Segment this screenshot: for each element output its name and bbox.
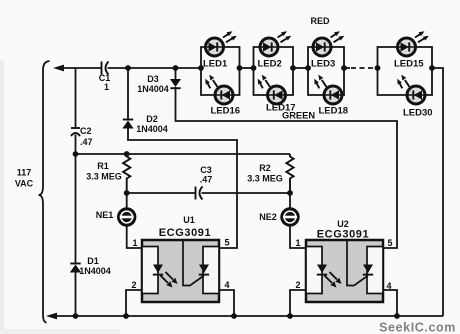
scan edge artifact left xyxy=(0,60,4,334)
svg-text:SeekIC.com: SeekIC.com xyxy=(379,321,456,334)
wire block2 to block3 xyxy=(293,67,308,69)
svg-text:RED: RED xyxy=(310,16,330,26)
wire D3 to U2 pin5 xyxy=(176,87,398,248)
LED block 2 frame xyxy=(254,47,294,95)
svg-text:2: 2 xyxy=(131,280,136,290)
LED block 3 frame xyxy=(308,47,344,95)
node block4 left xyxy=(375,65,381,71)
node C3 right xyxy=(287,190,293,196)
LED block 4 frame xyxy=(378,47,433,95)
scan edge artifact bottom xyxy=(0,329,120,334)
wire D2 branch vertical xyxy=(127,68,129,120)
op-amp U1 ECG3091 optocoupler xyxy=(142,240,219,302)
svg-text:ECG3091: ECG3091 xyxy=(159,227,212,239)
node block2 left xyxy=(251,65,257,71)
svg-text:1: 1 xyxy=(104,82,109,92)
resistor R2 xyxy=(286,154,293,193)
svg-text:LED2: LED2 xyxy=(258,59,282,70)
wire D3 branch vertical xyxy=(175,68,177,79)
capacitor C3 xyxy=(195,187,197,200)
neon lamp NE1 xyxy=(118,208,136,226)
svg-text:U2: U2 xyxy=(337,219,349,229)
wire NE2 to U2 pin1 xyxy=(290,226,306,249)
wire bottom rail xyxy=(55,315,443,317)
wire C2 D1 branch upper xyxy=(75,68,77,128)
LED17 xyxy=(268,86,286,104)
svg-text:GREEN: GREEN xyxy=(282,111,315,121)
node block1 left xyxy=(198,65,204,71)
wire D2 to U1 pin5 xyxy=(128,128,237,248)
node C3 left xyxy=(124,190,130,196)
node junction D2 tap xyxy=(125,65,131,71)
svg-text:R2: R2 xyxy=(259,163,271,173)
LED18 xyxy=(324,86,342,104)
svg-text:NE1: NE1 xyxy=(96,210,114,220)
node R1 top xyxy=(124,151,130,157)
wire U1 pin4 to bottom rail xyxy=(219,290,234,316)
wire R2 to NE2 xyxy=(289,193,291,209)
wire U2 pin2 to bottom rail xyxy=(290,290,306,316)
AC input arrow bottom xyxy=(46,313,57,320)
svg-text:D3: D3 xyxy=(147,74,159,84)
node bottom U1 pin2 xyxy=(123,313,129,319)
wire right rail xyxy=(432,68,443,316)
svg-text:5: 5 xyxy=(387,238,392,248)
wire block1 to block2 xyxy=(240,67,254,69)
wire R1 to NE1 xyxy=(126,193,128,209)
wire dashed continuation xyxy=(344,67,350,69)
svg-text:LED3: LED3 xyxy=(311,59,335,70)
capacitor C1 xyxy=(101,62,103,75)
op-amp U2 ECG3091 optocoupler xyxy=(306,240,383,302)
node bottom U2 pin2 xyxy=(287,313,293,319)
svg-text:D1: D1 xyxy=(87,256,99,266)
LED15 xyxy=(398,38,416,56)
svg-text:.47: .47 xyxy=(80,137,93,147)
svg-text:ECG3091: ECG3091 xyxy=(317,229,370,241)
wire NE1 to U1 pin1 xyxy=(127,226,142,249)
svg-text:3.3 MEG: 3.3 MEG xyxy=(86,172,122,182)
svg-text:LED1: LED1 xyxy=(203,59,228,70)
svg-text:NE2: NE2 xyxy=(259,212,277,222)
LED block 1 frame xyxy=(201,47,240,95)
svg-text:5: 5 xyxy=(224,238,229,248)
svg-text:1N4004: 1N4004 xyxy=(136,124,168,134)
neon lamp NE2 xyxy=(281,208,299,226)
wire D1 to bottom rail xyxy=(75,273,77,317)
node bottom D1 xyxy=(73,313,79,319)
wire top line left of C1 xyxy=(62,67,101,69)
AC input arrow top xyxy=(53,65,64,72)
svg-text:LED15: LED15 xyxy=(394,59,424,70)
svg-text:U1: U1 xyxy=(183,215,195,225)
LED2 xyxy=(260,38,278,56)
svg-text:LED18: LED18 xyxy=(319,106,349,117)
brace 117 VAC source xyxy=(39,61,50,323)
node block4 right xyxy=(429,65,435,71)
node block1 right xyxy=(237,65,243,71)
svg-text:LED30: LED30 xyxy=(403,108,433,119)
svg-text:LED16: LED16 xyxy=(211,106,241,117)
LED1 xyxy=(206,38,224,56)
node R rail left xyxy=(73,151,79,157)
svg-text:.47: .47 xyxy=(200,175,213,185)
svg-text:4: 4 xyxy=(224,280,229,290)
resistor R1 xyxy=(123,154,130,193)
wire C3 to R2 bottom xyxy=(202,192,291,194)
LED16 xyxy=(215,86,233,104)
LED3 xyxy=(313,38,331,56)
node block2 right xyxy=(290,65,296,71)
svg-text:C2: C2 xyxy=(80,126,92,136)
node block3 left xyxy=(305,65,311,71)
capacitor C2 xyxy=(71,127,80,129)
svg-text:2: 2 xyxy=(295,280,300,290)
wire U1 pin2 to bottom rail xyxy=(126,290,142,316)
wire top line C1 to LED block1 xyxy=(108,67,202,69)
wire C3 rail xyxy=(127,192,196,194)
wire R rail horizontal xyxy=(76,153,291,155)
diode D2 xyxy=(123,119,133,121)
node block3 right xyxy=(341,65,347,71)
node bottom U2 pin4 xyxy=(394,313,400,319)
svg-text:1: 1 xyxy=(295,238,300,248)
diode D1 xyxy=(70,263,80,265)
svg-text:R1: R1 xyxy=(97,161,109,171)
svg-text:C3: C3 xyxy=(200,165,212,175)
svg-text:VAC: VAC xyxy=(15,179,34,189)
node junction D3 tap xyxy=(173,65,179,71)
node bottom U1 pin4 xyxy=(231,313,237,319)
svg-text:1N4004: 1N4004 xyxy=(137,84,169,94)
svg-text:117: 117 xyxy=(17,168,32,178)
svg-text:3.3 MEG: 3.3 MEG xyxy=(247,174,283,184)
wire U2 pin4 to bottom rail xyxy=(383,290,397,316)
diode D3 xyxy=(170,79,181,87)
LED30 xyxy=(407,86,425,104)
svg-text:1N4004: 1N4004 xyxy=(79,266,111,276)
svg-text:1: 1 xyxy=(132,238,137,248)
svg-text:D2: D2 xyxy=(146,114,158,124)
wire C2 to D1 xyxy=(75,135,77,264)
